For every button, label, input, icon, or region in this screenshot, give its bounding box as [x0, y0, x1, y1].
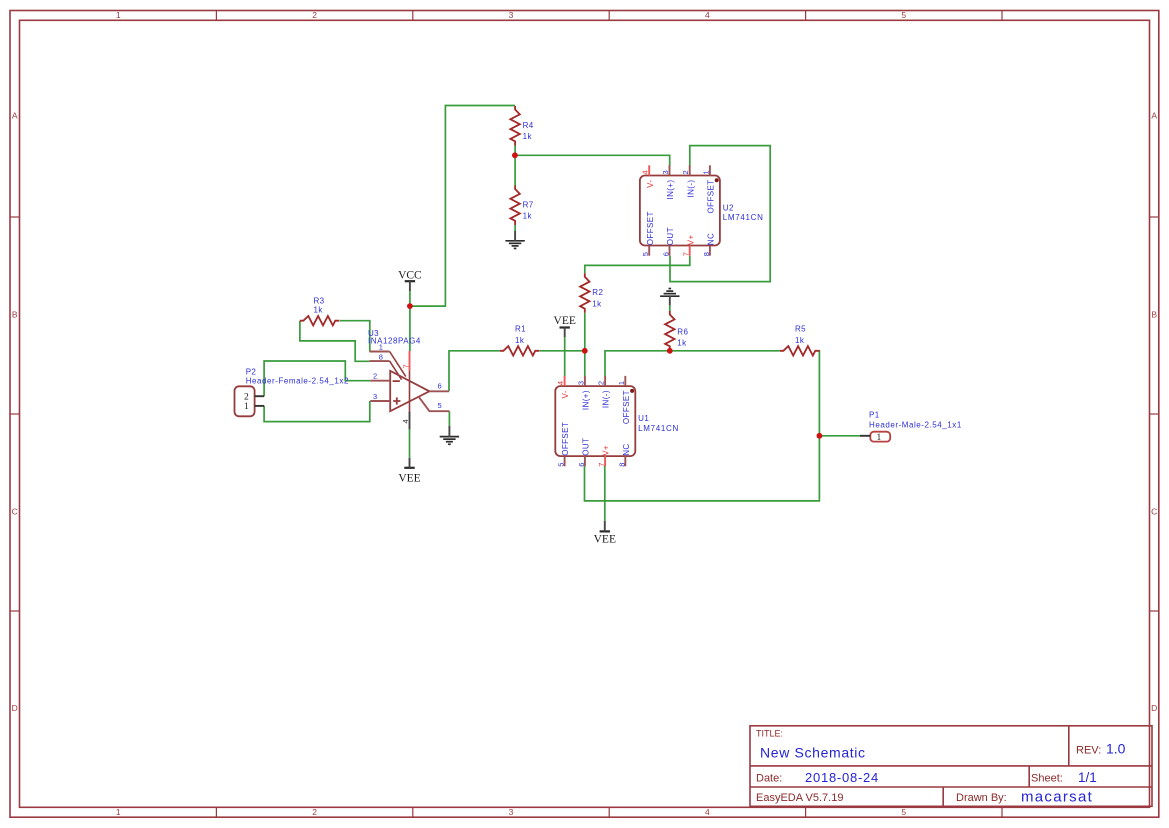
- op-amp U1 LM741CN: [555, 386, 635, 456]
- svg-text:1k: 1k: [523, 211, 533, 220]
- wire R1 right to junction at R2: [540, 350, 585, 352]
- svg-text:U1: U1: [638, 414, 649, 423]
- svg-text:R1: R1: [515, 325, 526, 334]
- svg-text:8: 8: [617, 463, 626, 467]
- resistor R1: [500, 346, 540, 355]
- U3 pin 1 stub: [369, 351, 389, 353]
- wire junction to P1: [819, 435, 860, 437]
- svg-text:LM741CN: LM741CN: [638, 424, 679, 433]
- svg-text:R4: R4: [523, 121, 534, 130]
- wire GND to R6 top: [669, 305, 671, 311]
- svg-text:2018-08-24: 2018-08-24: [805, 770, 879, 785]
- svg-text:VEE: VEE: [554, 315, 576, 327]
- wire R4 bottom to junction to R7: [514, 146, 516, 186]
- svg-text:VCC: VCC: [398, 270, 422, 282]
- svg-text:LM741CN: LM741CN: [723, 213, 764, 222]
- wire VEE stem to U1 pin4: [564, 337, 566, 376]
- svg-text:8: 8: [379, 353, 383, 362]
- svg-text:2: 2: [312, 807, 317, 817]
- svg-text:Header-Female-2.54_1x2: Header-Female-2.54_1x2: [246, 376, 349, 385]
- svg-text:4: 4: [556, 381, 565, 385]
- svg-text:1: 1: [244, 402, 249, 412]
- svg-text:R7: R7: [523, 200, 534, 209]
- svg-text:A: A: [1151, 111, 1157, 121]
- svg-text:NC: NC: [622, 443, 631, 455]
- svg-text:OFFSET: OFFSET: [707, 180, 716, 214]
- svg-text:REV:: REV:: [1076, 745, 1101, 757]
- svg-text:1k: 1k: [515, 336, 525, 345]
- resistor R3: [300, 316, 339, 325]
- junction R5-U1pin6/P1: [817, 433, 823, 439]
- svg-text:New Schematic: New Schematic: [760, 745, 866, 761]
- svg-text:V-: V-: [646, 180, 655, 188]
- wire junction to U2 pin3: [515, 155, 670, 166]
- resistor R5: [780, 346, 820, 355]
- svg-text:OUT: OUT: [582, 438, 591, 456]
- svg-text:8: 8: [702, 252, 711, 256]
- resistor R7: [510, 186, 519, 225]
- svg-text:6: 6: [577, 463, 586, 467]
- svg-text:OFFSET: OFFSET: [561, 422, 570, 456]
- svg-text:7: 7: [682, 252, 691, 256]
- junction VCC node: [407, 303, 413, 309]
- svg-text:3: 3: [509, 807, 514, 817]
- ground below R7: [505, 240, 524, 242]
- junction R4/R7/U2pin3: [512, 152, 518, 158]
- U3 plus sign: [393, 400, 400, 402]
- svg-text:Header-Male-2.54_1x1: Header-Male-2.54_1x1: [869, 421, 962, 430]
- svg-text:1k: 1k: [795, 336, 805, 345]
- svg-text:IN(+): IN(+): [582, 390, 591, 410]
- svg-text:NC: NC: [707, 233, 716, 245]
- VCC label: [405, 280, 415, 282]
- svg-text:V+: V+: [686, 234, 695, 245]
- svg-text:R5: R5: [795, 325, 806, 334]
- svg-text:U2: U2: [723, 204, 734, 213]
- wire U3 pin6 to R1: [449, 351, 500, 392]
- svg-text:IN(-): IN(-): [686, 180, 695, 198]
- svg-text:macarsat: macarsat: [1021, 788, 1093, 805]
- svg-text:5: 5: [438, 401, 442, 410]
- wire R2 bottom to junction: [584, 313, 586, 351]
- P2 pin 2 stub: [255, 395, 265, 397]
- wire U1 pin7 to VEE: [604, 465, 606, 521]
- svg-text:OUT: OUT: [666, 227, 675, 245]
- ground below U3 pin5: [440, 436, 459, 438]
- svg-text:D: D: [12, 703, 18, 713]
- svg-text:INA128PAG4: INA128PAG4: [368, 337, 421, 346]
- wire R3 right to U3 pin1: [340, 321, 370, 352]
- svg-text:4: 4: [401, 419, 410, 423]
- svg-text:2: 2: [373, 371, 377, 380]
- svg-text:1k: 1k: [677, 339, 687, 348]
- svg-text:3: 3: [373, 392, 377, 401]
- svg-text:1k: 1k: [592, 299, 602, 308]
- frame row ticks: [10, 216, 20, 218]
- svg-text:5: 5: [641, 252, 650, 256]
- wire VCC to R4 top: [409, 291, 411, 351]
- svg-text:5: 5: [901, 10, 906, 20]
- resistor R2: [580, 273, 589, 312]
- svg-text:4: 4: [705, 10, 710, 20]
- svg-text:EasyEDA V5.7.19: EasyEDA V5.7.19: [756, 792, 843, 804]
- U3 minus sign: [393, 380, 400, 382]
- op-amp U2 LM741CN: [640, 176, 720, 246]
- svg-text:VEE: VEE: [594, 533, 616, 545]
- wire U1 pin2 up and main net to R5: [605, 351, 780, 377]
- svg-text:1.0: 1.0: [1106, 741, 1126, 757]
- svg-text:2: 2: [681, 170, 690, 174]
- svg-text:1: 1: [116, 10, 121, 20]
- svg-text:2: 2: [312, 10, 317, 20]
- U3 pin 2 stub: [370, 380, 390, 382]
- wire U3 pin4 to VEE: [409, 429, 411, 457]
- op-amp U3 INA128PAG4: [390, 371, 429, 411]
- svg-text:2: 2: [244, 392, 249, 402]
- title block: [750, 726, 1152, 807]
- svg-text:Date:: Date:: [756, 773, 782, 785]
- junction R6/main net: [667, 348, 673, 354]
- svg-text:6: 6: [438, 381, 442, 390]
- flipped ground above R6: [660, 295, 679, 297]
- P2 pin 1 stub: [255, 405, 265, 407]
- svg-text:7: 7: [402, 364, 411, 368]
- wire U2 pin2 feedback from pin6: [670, 146, 770, 282]
- svg-text:P2: P2: [246, 368, 257, 377]
- svg-text:B: B: [1151, 310, 1157, 320]
- svg-text:IN(-): IN(-): [602, 390, 611, 408]
- svg-text:VEE: VEE: [398, 472, 420, 484]
- U3 pin 3 stub: [370, 400, 390, 402]
- wire P2 pin2 to U3 pin2: [264, 361, 370, 396]
- svg-text:TITLE:: TITLE:: [756, 729, 783, 739]
- svg-text:B: B: [12, 310, 18, 320]
- svg-text:P1: P1: [869, 411, 880, 420]
- U3 pin 7 stub: [409, 351, 411, 371]
- svg-text:1k: 1k: [314, 305, 324, 314]
- wire R5 right down to U1 pin6: [585, 351, 820, 501]
- svg-text:OFFSET: OFFSET: [622, 390, 631, 424]
- svg-text:C: C: [1151, 507, 1157, 517]
- svg-text:C: C: [12, 507, 18, 517]
- svg-text:Sheet:: Sheet:: [1031, 773, 1063, 785]
- svg-text:1k: 1k: [523, 132, 533, 141]
- svg-text:3: 3: [509, 10, 514, 20]
- resistor R4: [510, 106, 519, 145]
- VEE label: [404, 467, 414, 469]
- wire junction to U1 pin3: [584, 351, 586, 377]
- svg-text:1: 1: [617, 381, 626, 385]
- resistor R6: [665, 311, 674, 350]
- svg-text:A: A: [12, 111, 18, 121]
- svg-text:R2: R2: [592, 288, 603, 297]
- svg-text:1: 1: [701, 170, 710, 174]
- svg-text:3: 3: [576, 381, 585, 385]
- svg-text:IN(+): IN(+): [666, 180, 675, 200]
- svg-text:5: 5: [557, 463, 566, 467]
- svg-text:1: 1: [877, 433, 882, 443]
- svg-text:3: 3: [661, 170, 670, 174]
- wire P2 pin1 to U3 pin3: [264, 401, 370, 422]
- junction R2/R1/U1pin3: [582, 348, 588, 354]
- svg-text:V-: V-: [561, 390, 570, 398]
- svg-text:7: 7: [597, 463, 606, 467]
- wire U3 pin5 to ground: [448, 411, 450, 426]
- svg-text:1/1: 1/1: [1078, 770, 1097, 785]
- U3 pin 5 stub: [419, 397, 449, 411]
- U3 pin 8 stub: [369, 360, 389, 362]
- svg-text:4: 4: [705, 807, 710, 817]
- VEE label: [600, 530, 610, 532]
- svg-text:Drawn By:: Drawn By:: [956, 792, 1007, 804]
- connector P1 Header-Male: [870, 432, 890, 442]
- svg-text:R6: R6: [677, 327, 688, 336]
- svg-text:V+: V+: [602, 445, 611, 456]
- frame column ticks: [215, 11, 217, 21]
- connector P2 Header-Female: [235, 386, 255, 416]
- svg-text:6: 6: [662, 252, 671, 256]
- wire U2 pin7 to R2 top: [585, 256, 690, 273]
- VEE label: [560, 326, 570, 328]
- svg-text:OFFSET: OFFSET: [646, 211, 655, 245]
- U3 pin 4 stub: [409, 411, 411, 429]
- wire R3 left to U3 pin8: [300, 321, 370, 362]
- wire R6 bottom junction: [669, 350, 671, 352]
- P1 pin 1 stub: [860, 435, 870, 437]
- wire R7 bottom to ground: [514, 225, 516, 231]
- svg-text:1: 1: [116, 807, 121, 817]
- svg-text:4: 4: [641, 170, 650, 174]
- svg-text:5: 5: [901, 807, 906, 817]
- svg-text:D: D: [1151, 703, 1157, 713]
- U3 pin 6 stub: [429, 390, 449, 392]
- svg-text:2: 2: [597, 381, 606, 385]
